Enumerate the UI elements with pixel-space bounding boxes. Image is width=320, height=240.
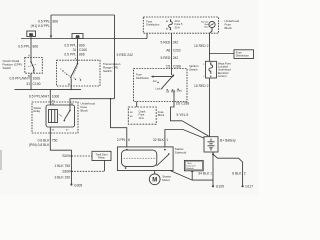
svg-text:Module: Module xyxy=(187,168,195,170)
svg-text:0.5 PPL: 0.5 PPL xyxy=(64,53,76,57)
fuse F1 xyxy=(169,19,173,30)
connector D5 C288 xyxy=(176,102,189,106)
svg-text:34 BLK 1: 34 BLK 1 xyxy=(198,172,212,176)
solenoid coil cylinder xyxy=(122,150,157,166)
switch CPP contacts xyxy=(28,58,36,74)
svg-text:(P/N) 0.8 BLK: (P/N) 0.8 BLK xyxy=(29,143,50,147)
label 0.5 PPL 806 CPP xyxy=(18,45,38,49)
wire top feed horizontal xyxy=(51,14,115,16)
svg-text:0.5 PPL: 0.5 PPL xyxy=(38,20,50,24)
svg-text:A: A xyxy=(28,54,30,58)
splice S209 xyxy=(70,155,72,157)
svg-text:806: 806 xyxy=(33,45,39,49)
wire fuse block to mega fuse to battery xyxy=(209,33,211,137)
starter solenoid box xyxy=(117,147,173,171)
mega fuse xyxy=(203,61,216,78)
node TR-bus2 xyxy=(70,89,72,91)
svg-text:Off: Off xyxy=(166,91,169,94)
svg-text:Switch: Switch xyxy=(189,67,198,71)
label Underhood Fuse Block (left) xyxy=(81,102,96,113)
svg-text:2: 2 xyxy=(244,172,246,176)
relay box theft deterrent xyxy=(92,151,111,160)
relay coil xyxy=(49,110,58,123)
svg-text:0.5 PPL/WHT: 0.5 PPL/WHT xyxy=(29,94,49,98)
battery stud symbol xyxy=(209,21,215,33)
splice S306 xyxy=(70,170,72,172)
svg-text:Switch: Switch xyxy=(3,66,12,70)
svg-text:6: 6 xyxy=(128,138,130,142)
solenoid contacts xyxy=(125,149,170,169)
wire relay output up-over xyxy=(70,99,111,105)
svg-text:10 RED 2: 10 RED 2 xyxy=(194,84,209,88)
svg-text:1006: 1006 xyxy=(52,94,60,98)
node battery junction xyxy=(212,153,214,155)
svg-text:C5: C5 xyxy=(166,64,170,68)
wire fuse to ignition switch xyxy=(171,33,173,68)
svg-text:Block: Block xyxy=(158,113,165,117)
label 8 BLK 2 xyxy=(232,172,246,176)
svg-text:750: 750 xyxy=(52,139,58,143)
underhood fuse block relay dashed box xyxy=(32,102,78,133)
svg-text:31: 31 xyxy=(26,82,30,86)
wire V1 drop with arrow xyxy=(50,15,52,36)
label Transmission Range (TR) Switch xyxy=(103,62,121,73)
svg-text:242: 242 xyxy=(173,41,179,45)
svg-text:Solenoid: Solenoid xyxy=(175,151,187,155)
svg-text:Switch: Switch xyxy=(103,69,112,73)
wire solenoid to motor xyxy=(154,171,156,175)
svg-text:Distribution: Distribution xyxy=(236,54,250,58)
connector A2 xyxy=(72,34,83,39)
wire relay coil drop xyxy=(49,89,51,105)
label Underhood Fuse Block top right xyxy=(225,19,240,30)
svg-text:Distribution: Distribution xyxy=(136,76,150,80)
svg-text:Center): Center) xyxy=(218,74,227,78)
wire splice dashed 2 xyxy=(71,170,104,172)
svg-text:Lock: Lock xyxy=(156,87,162,90)
svg-text:1: 1 xyxy=(166,138,168,142)
svg-text:0.8 BLK: 0.8 BLK xyxy=(38,139,51,143)
label 2 PPL 6 xyxy=(117,138,130,142)
label 0.5 PPL 806 xyxy=(31,20,59,29)
scan artifact left edge xyxy=(0,150,2,170)
node V2 junction xyxy=(110,98,112,100)
node CPP-bus2 xyxy=(30,89,32,91)
svg-text:3 BLK 150: 3 BLK 150 xyxy=(55,175,71,179)
wire to right ground xyxy=(213,154,243,186)
wire ign to crank fuse xyxy=(136,102,138,108)
label Starter Relay xyxy=(34,106,42,113)
battery stud text xyxy=(201,21,209,29)
svg-text:A6: A6 xyxy=(166,48,170,52)
svg-text:S306: S306 xyxy=(62,170,70,174)
wire splice dashed 1 xyxy=(71,155,92,157)
wire solenoid ground diagonal xyxy=(170,171,213,181)
svg-text:Motor: Motor xyxy=(162,178,170,182)
wire TR drop xyxy=(77,39,79,61)
starter motor M xyxy=(149,174,160,185)
wire ignition start out xyxy=(171,102,209,137)
label Fuse Block right xyxy=(158,110,165,117)
ground G105 xyxy=(212,185,214,187)
arrow fuse distribution box xyxy=(210,53,235,55)
svg-text:806: 806 xyxy=(53,20,59,24)
svg-text:0.5 PPL/WHT: 0.5 PPL/WHT xyxy=(10,76,30,80)
wire V2 RED 242 xyxy=(114,15,116,99)
svg-text:806: 806 xyxy=(79,53,85,57)
module theft deterrent xyxy=(184,160,203,170)
svg-text:5 RED: 5 RED xyxy=(160,41,170,45)
label Fuse Distribution inside xyxy=(146,19,160,26)
label Fuse Distribution arrow xyxy=(136,73,150,80)
relay K1 body xyxy=(46,105,75,127)
wire CPP drop xyxy=(30,39,32,58)
svg-text:B1: B1 xyxy=(30,32,34,36)
svg-text:A2: A2 xyxy=(76,34,80,38)
svg-text:G305: G305 xyxy=(74,183,82,187)
fuse F1 labels xyxy=(175,19,183,30)
svg-text:E: E xyxy=(68,82,70,86)
svg-text:5 RED: 5 RED xyxy=(160,56,170,60)
label Starter Solenoid xyxy=(175,147,187,155)
ground G305 xyxy=(70,183,72,185)
switch TR contacts xyxy=(60,60,81,86)
wire TR out xyxy=(70,86,72,89)
label stack 0.5 PPL 806 C100 TR xyxy=(64,43,87,60)
svg-text:S209: S209 xyxy=(62,154,70,158)
connector B1 xyxy=(27,31,36,39)
ground G117 xyxy=(242,185,244,187)
svg-text:C100: C100 xyxy=(79,48,87,52)
wire battery feed to solenoid B xyxy=(165,130,205,147)
fuse block crank fuse dashed box xyxy=(128,107,156,124)
svg-text:32 BLK: 32 BLK xyxy=(153,138,165,142)
svg-text:Run: Run xyxy=(171,91,176,94)
svg-text:Block: Block xyxy=(81,109,89,113)
relay contacts xyxy=(59,105,71,121)
svg-text:Block: Block xyxy=(225,26,233,30)
svg-text:10 RED 2: 10 RED 2 xyxy=(194,44,209,48)
wire CPP out xyxy=(30,73,32,89)
svg-text:C100: C100 xyxy=(33,82,41,86)
label 0.5 PPL/WHT 1006 xyxy=(10,76,41,80)
svg-text:31: 31 xyxy=(73,48,77,52)
svg-text:0.5 PPL: 0.5 PPL xyxy=(64,43,76,47)
underhood fuse block dashed box top xyxy=(143,17,218,33)
svg-text:1 BLK 750: 1 BLK 750 xyxy=(55,164,71,168)
switch CPP box xyxy=(25,58,43,74)
wire relay coil ground xyxy=(50,127,71,185)
svg-text:M: M xyxy=(152,178,157,184)
svg-text:G117: G117 xyxy=(245,185,253,189)
wire bus2 xyxy=(15,88,82,90)
labels 5 RED 242 C202 C288 xyxy=(160,41,180,69)
svg-text:C288: C288 xyxy=(173,64,181,68)
crank fuse text xyxy=(130,109,146,119)
svg-text:B+ Battery: B+ Battery xyxy=(220,139,236,143)
node bus1-V2 junction xyxy=(114,38,116,40)
svg-text:5 YEL 5: 5 YEL 5 xyxy=(177,113,189,117)
svg-text:0.5 PPL: 0.5 PPL xyxy=(18,45,30,49)
svg-text:Relay: Relay xyxy=(98,156,105,160)
fuse F1 pins xyxy=(166,21,169,30)
connector 31 C100 xyxy=(26,82,40,86)
wire bus1 xyxy=(21,33,147,38)
svg-text:Distribution: Distribution xyxy=(146,23,160,27)
wire down to solenoid S xyxy=(111,99,127,147)
wire theft relay down xyxy=(104,161,106,172)
svg-text:30 A: 30 A xyxy=(175,25,180,29)
svg-text:242: 242 xyxy=(173,56,179,60)
label Starter Motor xyxy=(162,174,171,182)
svg-text:D5 C288: D5 C288 xyxy=(176,102,189,106)
svg-text:3 RED 242: 3 RED 242 xyxy=(117,53,133,57)
svg-text:Start: Start xyxy=(177,89,182,92)
label 32 BLK 1 xyxy=(153,138,168,142)
svg-text:C202: C202 xyxy=(173,48,181,52)
switch TR box xyxy=(57,60,100,86)
label 0.8 BLK 750 xyxy=(29,139,58,148)
label Clutch Pedal Position (CPP) Switch xyxy=(3,59,22,70)
ignition switch dashed box xyxy=(134,69,188,102)
svg-text:G105: G105 xyxy=(216,185,224,189)
wire battery negative down xyxy=(212,152,214,186)
svg-text:(H1) 0.5 PPL: (H1) 0.5 PPL xyxy=(31,24,50,28)
svg-text:806: 806 xyxy=(79,43,85,47)
battery xyxy=(204,137,218,152)
relay pin labels xyxy=(52,103,74,131)
label Mega Fuse callout xyxy=(218,61,232,78)
label Ignition Switch xyxy=(189,64,199,72)
svg-text:Relay: Relay xyxy=(34,109,41,113)
svg-text:10 A: 10 A xyxy=(139,116,144,120)
arrow to theft module xyxy=(191,172,193,181)
svg-text:2 PPL: 2 PPL xyxy=(117,138,126,142)
switch ignition contacts xyxy=(153,69,182,102)
svg-text:8 BLK: 8 BLK xyxy=(232,172,242,176)
svg-text:1006: 1006 xyxy=(33,76,41,80)
label 0.5 PPL/WHT 1006 relay xyxy=(29,94,60,98)
